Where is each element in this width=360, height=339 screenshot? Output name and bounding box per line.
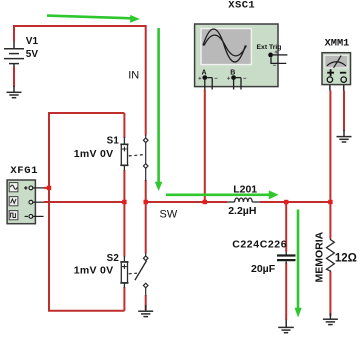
svg-text:20µF: 20µF — [251, 263, 276, 275]
svg-text:1mV 0V: 1mV 0V — [74, 265, 114, 277]
svg-text:MEMORIA: MEMORIA — [314, 231, 326, 282]
svg-text:L201: L201 — [233, 183, 257, 195]
svg-text:S2: S2 — [107, 253, 120, 264]
svg-text:V1: V1 — [26, 36, 39, 47]
svg-text:C224C226: C224C226 — [232, 238, 287, 250]
svg-text:Ext Trig: Ext Trig — [257, 44, 282, 51]
svg-text:12Ω: 12Ω — [335, 253, 357, 265]
svg-text:5V: 5V — [26, 49, 39, 60]
svg-text:XFG1: XFG1 — [10, 165, 38, 177]
svg-text:SW: SW — [160, 208, 178, 220]
svg-text:IN: IN — [128, 70, 139, 82]
svg-text:XMM1: XMM1 — [325, 38, 350, 50]
svg-text:S1: S1 — [107, 136, 120, 147]
svg-text:XSC1: XSC1 — [228, 0, 255, 12]
svg-text:2.2µH: 2.2µH — [228, 205, 256, 217]
svg-text:1mV 0V: 1mV 0V — [74, 148, 114, 160]
